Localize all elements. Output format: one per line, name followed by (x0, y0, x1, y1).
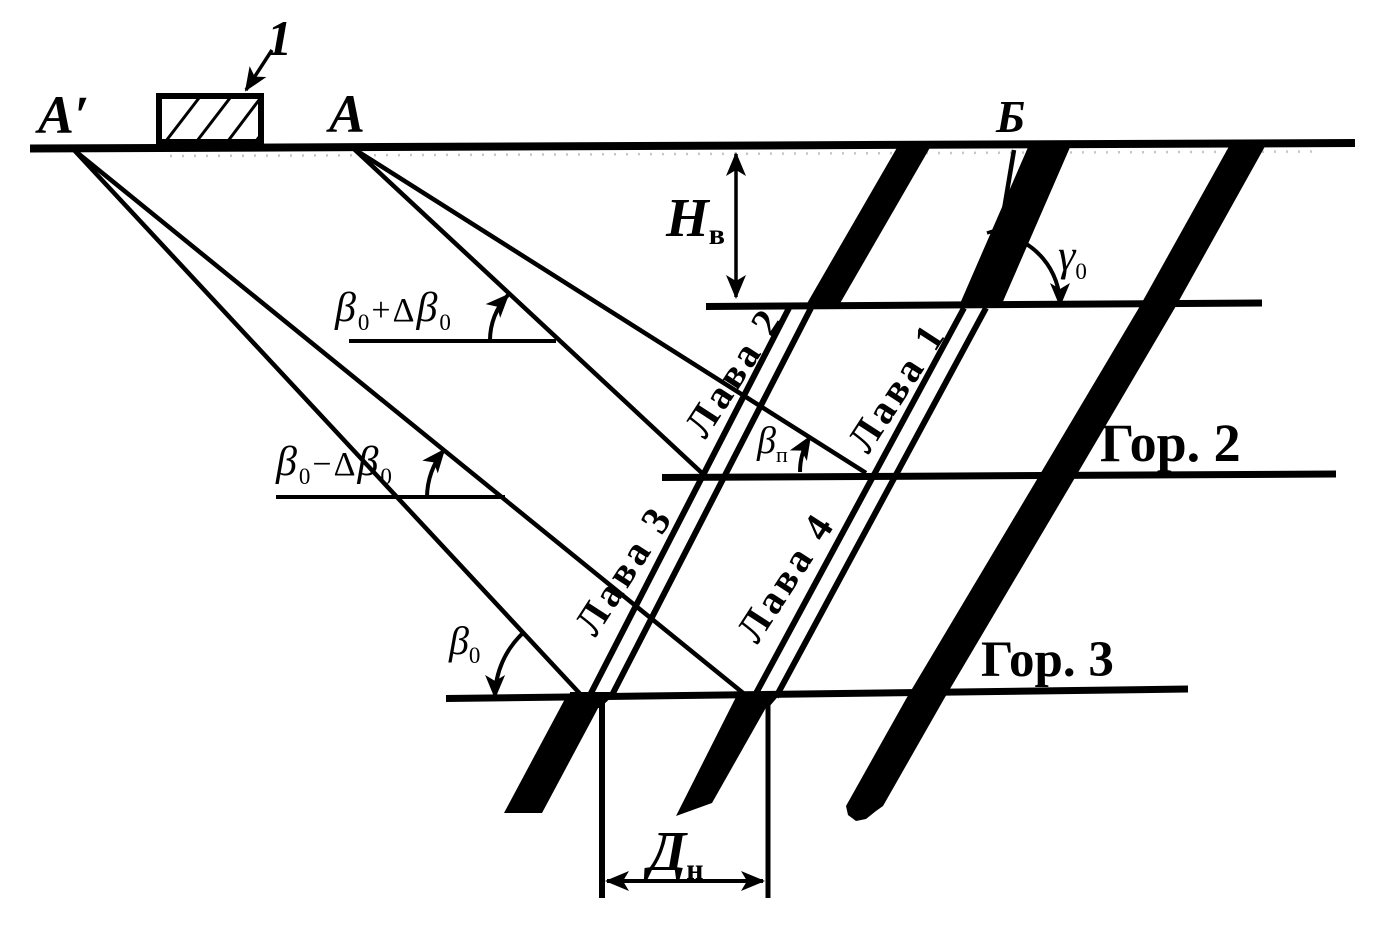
svg-text:β0+Δβ0: β0+Δβ0 (334, 285, 453, 335)
svg-text:1: 1 (267, 10, 292, 66)
svg-text:Гор. 2: Гор. 2 (1100, 413, 1241, 473)
svg-text:β0−Δβ0: β0−Δβ0 (275, 439, 394, 489)
svg-text:Гор. 3: Гор. 3 (981, 632, 1114, 688)
svg-text:А: А (326, 84, 365, 144)
svg-text:А′: А′ (35, 85, 89, 145)
svg-text:Б: Б (995, 91, 1025, 142)
